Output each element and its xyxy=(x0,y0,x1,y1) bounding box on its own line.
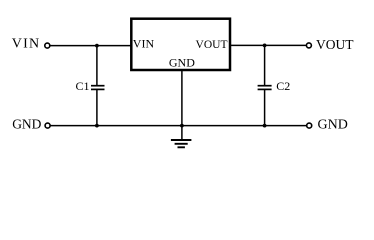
ground xyxy=(171,140,192,147)
wire C1 bottom branch xyxy=(96,90,98,126)
svg-text:C2: C2 xyxy=(276,79,290,93)
node junction at C2 bottom xyxy=(263,124,267,128)
capacitor C2 xyxy=(258,86,272,90)
svg-text:VIN: VIN xyxy=(12,37,40,52)
wire U1 VOUT to terminal xyxy=(231,44,307,46)
node junction at C2 top xyxy=(263,44,267,48)
svg-text:GND: GND xyxy=(318,118,348,133)
capacitor C1 xyxy=(91,86,105,90)
terminal VIN xyxy=(45,43,50,48)
regulator IC U1 xyxy=(131,19,230,70)
terminal VOUT xyxy=(306,43,311,48)
wire C2 top branch xyxy=(264,45,266,85)
terminal GND right xyxy=(307,123,312,128)
svg-text:VOUT: VOUT xyxy=(316,37,354,52)
svg-text:VOUT: VOUT xyxy=(196,39,228,51)
svg-text:GND: GND xyxy=(12,117,41,132)
wire C1 top branch xyxy=(96,46,98,86)
svg-text:C1: C1 xyxy=(76,79,90,93)
wire U1 GND stem xyxy=(181,70,183,140)
svg-text:VIN: VIN xyxy=(133,37,155,51)
svg-text:GND: GND xyxy=(169,56,195,70)
node junction at ground stem xyxy=(180,124,184,128)
terminal GND left xyxy=(45,123,50,128)
wire C2 bottom branch xyxy=(264,90,266,126)
wire VIN terminal to U1 xyxy=(50,45,131,47)
wire GND rail xyxy=(50,125,306,127)
node junction at C1 top xyxy=(95,44,99,48)
node junction at C1 bottom xyxy=(95,124,99,128)
